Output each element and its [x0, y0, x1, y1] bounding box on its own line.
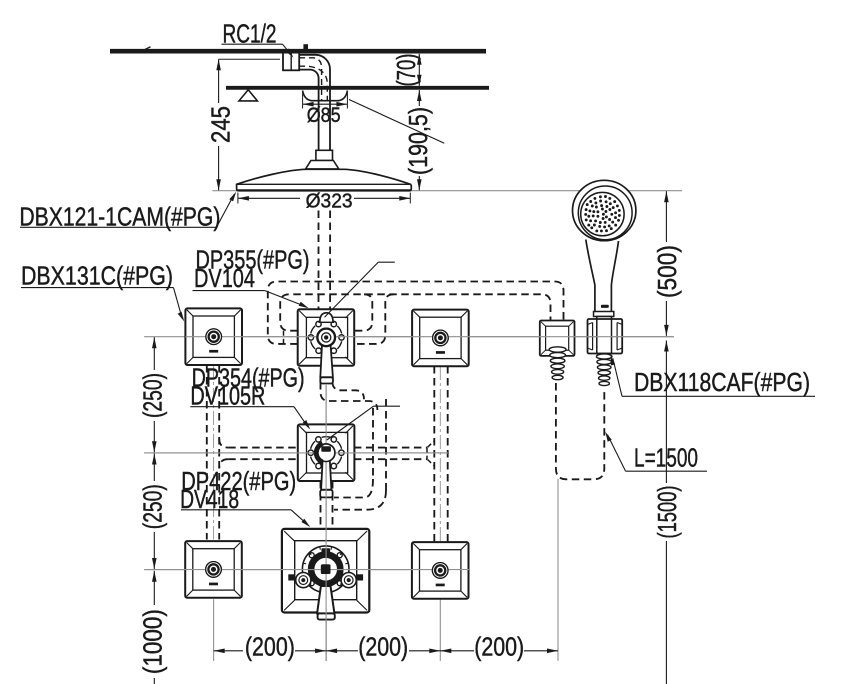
- mounting nub on ceiling line: [303, 44, 308, 49]
- wire: shower-head reference line: [212, 190, 682, 192]
- valve DP422 left knob: [296, 573, 311, 588]
- dimension (70): [418, 54, 420, 86]
- holder hose thread: [596, 354, 612, 359]
- wire: escutcheon extension lines: [302, 93, 304, 109]
- hand shower handle: [586, 240, 619, 317]
- wire: RC1/2 supply pipe horizontal with elbow down: [299, 55, 330, 151]
- hand shower holder bracket: [588, 319, 623, 354]
- wire: left port flange dash: [283, 331, 285, 344]
- svg-text:DBX131C(#PG): DBX131C(#PG): [21, 261, 173, 291]
- handle logo tick: [601, 305, 609, 308]
- svg-text:(200): (200): [245, 632, 295, 662]
- wire: dashed hand-shower hose loop: [556, 383, 604, 479]
- svg-text:(1000): (1000): [137, 609, 167, 674]
- svg-text:(250): (250): [137, 373, 167, 418]
- valve hubs redrawn over lines: [317, 329, 335, 347]
- valve DP354 dark crescent: [316, 444, 322, 463]
- svg-text:DV104: DV104: [194, 263, 255, 293]
- svg-text:(250): (250): [137, 484, 167, 529]
- dimension (1500): [665, 341, 667, 484]
- wire: left column axis x=213: [213, 365, 215, 540]
- svg-text:(200): (200): [358, 632, 408, 662]
- wire: right tee cap and chamfers: [426, 448, 428, 460]
- svg-text:DBX118CAF(#PG): DBX118CAF(#PG): [634, 367, 810, 397]
- valve DP354/DV105R escutcheon: [298, 424, 355, 481]
- svg-text:DV105R: DV105R: [190, 381, 265, 411]
- wire: row-1 valve centerline: [144, 336, 674, 338]
- wall elbow hose thread: [549, 347, 566, 352]
- valve DP355 top cap: [320, 313, 333, 323]
- wire: row-2 line over valve: [144, 452, 448, 454]
- wire: row-3 valve centerline: [144, 569, 470, 571]
- wire: bypass riser bottom elbow back to center (outer): [334, 491, 386, 510]
- wire: row-2 valve centerline: [144, 452, 448, 454]
- valve DP354 hub: [317, 444, 335, 462]
- dimension (250) lower: [153, 454, 155, 482]
- svg-text:(70): (70): [391, 54, 421, 87]
- svg-text:245: 245: [206, 106, 236, 143]
- wire: DP355 jog inner: [333, 382, 365, 399]
- dimension (200) x3: [214, 650, 243, 652]
- valve DP422 outer ring with ticks: [302, 546, 349, 593]
- wire: left tee branch to DP354 left port: [228, 447, 297, 449]
- wire: row-3 line over plates: [144, 569, 470, 571]
- pipe coupling nut: [283, 52, 299, 70]
- valve DP422 lever handle: [317, 586, 334, 613]
- svg-text:(1500): (1500): [652, 486, 682, 539]
- wire: dashed drop from supply run into DP355 right port (outer): [354, 294, 394, 344]
- shower head DBX121 ceiling mount collar: [316, 150, 333, 160]
- wire: center vertical axis x=326: [325, 385, 327, 661]
- valve DP355/DV104 escutcheon: [298, 309, 355, 366]
- wire: hidden bore dashed lines in elbow: [299, 58, 322, 101]
- valve DP354 trim ring and bolts: [337, 457, 341, 465]
- valve DP422 top tab: [321, 548, 330, 554]
- wire: bypass riser down right of DP354: [385, 399, 387, 491]
- valve DP355 lever handle: [320, 345, 333, 377]
- wire: center axis over valves: [325, 385, 327, 661]
- svg-text:Ø323: Ø323: [306, 189, 353, 212]
- wire: dashed drop into DP355 right port (inner): [354, 294, 372, 330]
- wire: dashed supply run inner line: [280, 294, 550, 330]
- wire: right tee branch to DP354 right port: [354, 447, 427, 449]
- dimension (500): [665, 191, 667, 242]
- hand shower holder collar: [594, 312, 614, 317]
- wire: bypass riser bottom elbow (inner): [334, 479, 373, 498]
- dimension (190,5): [418, 90, 420, 106]
- wire: leader diagonal from escutcheon: [349, 100, 444, 144]
- ceiling finished surface line: [226, 86, 489, 90]
- handle passing through holder: [597, 317, 612, 354]
- small tick on ceiling line: [144, 47, 151, 50]
- shower head mount trapezoid: [306, 161, 339, 169]
- svg-text:(500): (500): [652, 245, 682, 298]
- wall plate row3 left: [185, 541, 242, 598]
- wall plate row3 right: [412, 542, 469, 599]
- valve DP422 dark annulus: [311, 555, 340, 584]
- wire: dashed riser from DP355 top to ceiling shower pipe: [318, 211, 320, 310]
- wire: DP355 bottom stub and jog to bypass riser (outer): [321, 382, 378, 410]
- svg-text:Ø85: Ø85: [307, 104, 341, 127]
- wire: bottom extension lines: [325, 621, 327, 661]
- svg-text:(200): (200): [474, 632, 524, 662]
- dimension Ø323: [238, 197, 300, 199]
- hand shower wall supply elbow square: [540, 321, 575, 356]
- svg-text:(190,5): (190,5): [403, 107, 433, 175]
- dimension 245 vertical: [219, 58, 280, 60]
- wire: left dashed column from DBX131C plate down to row-3 plate: [206, 365, 208, 540]
- valve DP422 right knob: [341, 573, 356, 588]
- valve DP422 center: [321, 564, 331, 574]
- ceiling slab top line: [110, 49, 486, 54]
- wire: dashed supply run DP355 left port up and across to hand-shower wall elbow (outer line): [268, 282, 564, 344]
- wire: row-1 line over plates: [185, 336, 673, 338]
- valve DP422/DV418 large escutcheon: [282, 529, 369, 613]
- dimension (1000): [153, 571, 155, 605]
- wall plate DBX131C (row1 left): [185, 308, 242, 365]
- valve DP354 lever handle: [321, 460, 331, 490]
- dimension (250) upper: [153, 337, 155, 370]
- wall plate row1 right: [412, 310, 469, 367]
- hand shower head DBX118CAF: [573, 180, 636, 240]
- wire: center stub DP354 bottom to DP422 top: [320, 481, 322, 529]
- svg-text:L=1500: L=1500: [634, 442, 698, 472]
- spray face dots: [584, 195, 621, 232]
- dimension Ø85: [303, 103, 348, 105]
- wire: right column axis x=440: [439, 366, 441, 599]
- shower head dome and rim: [237, 169, 412, 191]
- valve DP355 hub: [317, 329, 335, 347]
- wire: right dashed column from row-1 right plate down to row-3 right plate: [433, 366, 435, 541]
- wire: hose extension line x=558: [557, 479, 559, 661]
- escutcheon dome below ceiling: [303, 91, 348, 101]
- valve DP355 trim ring and bolts: [337, 341, 341, 349]
- level triangle symbol: [239, 90, 257, 101]
